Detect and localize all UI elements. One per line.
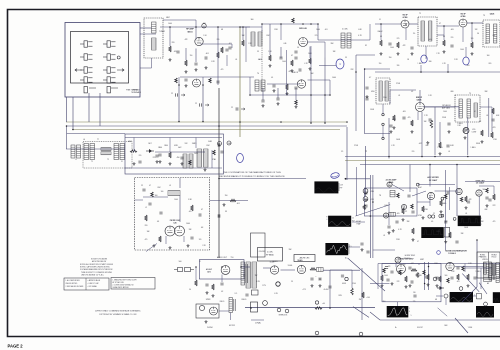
svg-text:T4: T4 (257, 73, 259, 75)
resistor R54 (151, 192, 154, 197)
wire pw8 (361, 268, 363, 320)
svg-text:.05: .05 (235, 59, 237, 61)
resistor R33 (286, 84, 289, 90)
svg-text:L6: L6 (83, 139, 85, 141)
wire bus right pair upper (345, 156, 500, 158)
wire if3 (437, 25, 459, 27)
capacitor C70 (310, 278, 313, 280)
capacitor C3 (228, 47, 231, 49)
svg-text:P-P: P-P (352, 220, 354, 222)
svg-text:1 MEG: 1 MEG (476, 271, 482, 273)
svg-text:.005: .005 (466, 65, 469, 67)
wire au3 (195, 267, 197, 280)
svg-text:.01: .01 (448, 151, 450, 153)
svg-text:ON-OFF: ON-OFF (259, 251, 265, 253)
junction dot 37 (429, 164, 431, 166)
junction dot 38 (370, 215, 372, 217)
ground G11 (397, 52, 400, 55)
coil horiz2 (496, 263, 499, 283)
svg-text:47: 47 (474, 111, 476, 113)
ground G39 (448, 130, 451, 133)
wire au7 (241, 266, 250, 268)
svg-text:PHONO: PHONO (207, 327, 214, 329)
wire verticals center (310, 60, 312, 123)
svg-text:AUDIO OUT: AUDIO OUT (217, 256, 228, 259)
phono jack J1 (218, 142, 222, 146)
svg-text:INTERLOCK: INTERLOCK (279, 315, 288, 317)
capacitor C107 (425, 276, 428, 278)
bracket C (348, 244, 350, 254)
horiz section top wire (378, 263, 500, 265)
svg-text:220: 220 (412, 151, 415, 153)
svg-text:47: 47 (149, 185, 151, 187)
capacitor C52 (199, 213, 201, 216)
wire agd3 (448, 187, 450, 210)
wire snd r2 (419, 90, 421, 103)
resistor R105 (462, 266, 465, 271)
capacitor C25 (447, 123, 450, 125)
AM osc transformer (197, 149, 202, 167)
ground G62 (440, 210, 443, 213)
resistor R40 (130, 150, 137, 153)
resistor R35 (209, 78, 212, 83)
tuner arrow right (117, 69, 124, 72)
coil T5b (494, 24, 497, 43)
svg-text:220: 220 (145, 225, 148, 227)
ground G70 (311, 284, 314, 287)
terminal near H (484, 302, 488, 306)
svg-text:68: 68 (435, 299, 437, 301)
wire rf5 (195, 49, 197, 63)
svg-text:47: 47 (439, 23, 441, 25)
svg-text:39: 39 (345, 57, 347, 59)
test point TP1 (336, 59, 344, 69)
tube V19 (401, 204, 406, 209)
terminal tb2 (441, 197, 444, 200)
svg-text:117VAC: 117VAC (255, 322, 262, 325)
tube V7b (175, 226, 185, 236)
svg-text:FIELD: FIELD (242, 299, 248, 301)
capacitor C23 (463, 129, 466, 131)
resistor R64 (493, 194, 496, 200)
ground G61 (422, 216, 425, 219)
resistor R80 (212, 284, 215, 290)
junction dot 11 (380, 23, 382, 25)
label box white (444, 228, 450, 238)
capacitor C65 (467, 201, 470, 203)
wire c31 (405, 28, 407, 40)
ground G102 (361, 248, 364, 251)
ground G2 (185, 70, 188, 73)
choke transformer (229, 298, 232, 313)
wire snd v3 (491, 122, 493, 132)
wire c33 (425, 46, 427, 59)
capacitor C90 (386, 279, 389, 281)
svg-text:.02: .02 (221, 291, 223, 293)
svg-text:1000: 1000 (316, 29, 320, 31)
capacitor C4 (194, 63, 197, 65)
svg-text:L9: L9 (169, 185, 171, 187)
capacitor C62 (485, 197, 488, 199)
resistor R51 (191, 205, 194, 211)
tuner contact row below (84, 87, 118, 93)
horiz section box (382, 264, 441, 302)
capacitor C51 (159, 212, 162, 214)
wire diag hz1 (462, 274, 479, 292)
svg-text:120: 120 (199, 239, 202, 241)
capacitor C33 (272, 85, 275, 87)
capacitor C103 (395, 221, 398, 223)
resistor R97 (399, 270, 402, 275)
wire hz11 (455, 266, 484, 268)
capacitor C41 (180, 157, 183, 159)
wire c6 (245, 27, 247, 62)
coil T4a (421, 21, 424, 41)
wire c32 (462, 27, 464, 42)
svg-text:IF: IF (379, 19, 381, 21)
junction dot 40 (424, 283, 426, 285)
svg-text:4.5 MC: 4.5 MC (267, 252, 273, 254)
wire am top (125, 137, 222, 139)
resistor R62 (440, 200, 443, 206)
svg-text:1: 1 (481, 218, 482, 220)
ground G37 (390, 130, 393, 133)
capacitor C10 (388, 43, 391, 45)
junction dot 20 (329, 94, 331, 96)
ground G34 (286, 92, 289, 95)
capacitor C34 (294, 87, 297, 89)
coil 4.5mc (390, 190, 395, 197)
wire c21 (308, 79, 331, 81)
capacitor C54 on bus (218, 214, 220, 217)
wire wf2 (352, 221, 365, 223)
wire c5 (231, 44, 233, 48)
svg-text:110: 110 (413, 292, 416, 294)
ground G80 (206, 291, 209, 294)
svg-text:RF AMP: RF AMP (186, 28, 194, 31)
wire c13 (318, 39, 351, 41)
svg-text:THE COOPERATION OF THE MANUFAC: THE COOPERATION OF THE MANUFACTURER OF T… (223, 171, 281, 174)
svg-text:+140: +140 (366, 297, 370, 299)
wire aud v1 (421, 112, 423, 157)
tube V4 (401, 20, 409, 28)
svg-text:60: 60 (345, 257, 347, 259)
svg-text:1 MEG: 1 MEG (418, 63, 424, 65)
junction dot 27 (310, 122, 312, 124)
junction dot 25 (218, 125, 220, 127)
wire c9 (280, 24, 282, 40)
ground G35 (185, 84, 188, 87)
wire c12 (310, 46, 312, 60)
wire bus right third (360, 164, 500, 166)
svg-text:SND IF: SND IF (292, 72, 299, 74)
svg-text:P-P: P-P (340, 188, 343, 190)
svg-text:.005: .005 (428, 39, 431, 41)
capacitor C102 (407, 195, 410, 197)
svg-text:PAGE 2: PAGE 2 (8, 344, 24, 349)
svg-text:22: 22 (171, 93, 173, 95)
svg-text:.02: .02 (398, 95, 400, 97)
wire v240 (239, 27, 241, 137)
wire bottom rail lead (370, 312, 380, 320)
wire wf3 (348, 246, 360, 248)
resistor R67 (460, 197, 463, 202)
svg-text:COPYRIGHT BY HOWARD W. SAMS CO: COPYRIGHT BY HOWARD W. SAMS CO. INC. (99, 313, 138, 316)
wire fm out (210, 200, 249, 202)
wire hz7 (464, 264, 466, 273)
junction dot 15 (420, 71, 422, 73)
svg-text:RF BAND: RF BAND (266, 254, 275, 257)
svg-text:68: 68 (221, 29, 223, 31)
junction dot 1 (217, 26, 219, 28)
capacitor C39c (236, 107, 238, 110)
capacitor C60 (411, 211, 414, 213)
capacitor C39 (176, 93, 178, 96)
capacitor C37 (365, 87, 368, 89)
wire agd4 (465, 181, 500, 183)
coil T7c (474, 103, 477, 117)
resistor R96 (383, 268, 386, 273)
junction dot 44 (250, 307, 252, 309)
svg-text:47: 47 (201, 209, 203, 211)
wire fm4 (165, 236, 167, 244)
svg-text:6AU6: 6AU6 (258, 58, 262, 61)
ground G96 (436, 284, 439, 287)
tuner switch contact 1B (103, 41, 116, 47)
coil ctrl2 (493, 263, 496, 275)
svg-text:.05: .05 (465, 213, 467, 215)
terminal pw2 (315, 301, 318, 304)
svg-text:DET: DET (148, 143, 151, 145)
resistor R3 (217, 52, 220, 58)
wire pw6 (251, 319, 264, 321)
wire agc11 (409, 165, 411, 193)
junction dot 17 (310, 94, 312, 96)
junction dot 4 (280, 23, 282, 25)
resistor R63 (465, 196, 468, 202)
wire au2 (221, 275, 223, 283)
wire sync diag (462, 287, 477, 302)
tube V2 MIXER (299, 38, 308, 47)
svg-text:50B5: 50B5 (208, 141, 212, 143)
ground G20 (393, 126, 396, 129)
AM IF can T6x (84, 144, 89, 160)
svg-text:150: 150 (389, 57, 392, 59)
ground G12 (411, 52, 414, 55)
svg-text:SPKR: SPKR (206, 299, 211, 301)
wire hz1 (395, 264, 397, 268)
AC interlock box (251, 302, 258, 312)
ground G38 (426, 141, 429, 144)
notes table divider (85, 278, 87, 290)
resistor blocks (101, 148, 111, 151)
svg-text:NOISE DISCRIMINATOR: NOISE DISCRIMINATOR (445, 249, 467, 252)
coil 4.5mc b (389, 212, 396, 216)
svg-text:220: 220 (172, 42, 175, 44)
waveform photo W6 (450, 292, 473, 302)
wire tp line (319, 65, 336, 67)
svg-text:470: 470 (408, 117, 411, 119)
capacitor C35 (184, 79, 187, 81)
svg-text:.005: .005 (173, 51, 176, 53)
ground G33 (273, 89, 276, 92)
resistor R1 (169, 46, 172, 52)
resistor R102 (411, 204, 414, 209)
svg-text:.001: .001 (484, 43, 487, 45)
output transformer core (245, 264, 247, 283)
junction dot 42 (476, 239, 478, 241)
wire w45b (417, 201, 430, 203)
svg-text:+275: +275 (302, 289, 306, 291)
svg-text:.001: .001 (236, 203, 239, 205)
wire snd (317, 24, 319, 40)
svg-text:220: 220 (139, 155, 142, 157)
capacitor C43 (138, 161, 141, 163)
svg-text:220: 220 (451, 37, 454, 39)
wire tuner verticals (67, 93, 101, 130)
svg-text:AF AMP: AF AMP (206, 268, 213, 271)
wire mx3 (309, 47, 311, 59)
wire antenna lead (151, 58, 153, 68)
resistor block audio 2 (185, 268, 191, 272)
capacitor C101 (364, 205, 367, 207)
resistor R73 (362, 292, 365, 298)
ground G71 (319, 284, 322, 287)
svg-text:330: 330 (429, 61, 432, 63)
resistor R12 (443, 40, 446, 46)
resistor R10 (380, 40, 383, 46)
svg-text:T7: T7 (97, 139, 99, 141)
svg-text:.05: .05 (431, 221, 433, 223)
wire diag hz2 (479, 283, 487, 294)
wire rf2 (185, 48, 187, 60)
label small box1 (258, 248, 283, 262)
wire pw1 (263, 267, 271, 269)
svg-text:100: 100 (487, 55, 490, 57)
wire hz10 (370, 283, 390, 285)
wire agc1 (412, 191, 426, 196)
box outline pw left (251, 233, 266, 257)
ground G42 (169, 162, 172, 165)
wire c4 (201, 43, 233, 45)
junction dot 14 (471, 22, 473, 24)
svg-text:1 MEG: 1 MEG (457, 123, 463, 125)
wire c1 (163, 19, 196, 21)
wire sync v (476, 240, 478, 287)
junction dot 47 (221, 266, 223, 268)
svg-text:1200: 1200 (352, 283, 356, 285)
circle above F (459, 287, 463, 291)
svg-text:270: 270 (315, 35, 318, 37)
ground G24 (464, 136, 467, 139)
svg-text:1000: 1000 (282, 61, 286, 63)
svg-text:20W: 20W (338, 295, 342, 297)
wire wf1 (346, 178, 371, 180)
junction dot 18 (324, 94, 326, 96)
svg-text:PHASING: PHASING (479, 256, 487, 259)
svg-text:47: 47 (417, 241, 419, 243)
ground G82 (205, 320, 208, 323)
coil T4b (429, 21, 432, 41)
junction dot 48 (240, 266, 242, 268)
resistor R23 (481, 130, 484, 136)
svg-text:680: 680 (451, 91, 454, 93)
junction dot 32 (421, 156, 423, 158)
capacitor C91 (411, 280, 413, 283)
svg-text:.05: .05 (486, 115, 488, 117)
svg-text:4700: 4700 (371, 91, 375, 93)
ground G13 (443, 50, 446, 53)
svg-text:68: 68 (380, 36, 382, 38)
resistor R103 (411, 269, 417, 272)
svg-text:B+: B+ (395, 327, 397, 329)
junction dot 39 (372, 201, 374, 203)
capacitor C40b (389, 125, 392, 127)
capacitor C96 (408, 267, 411, 269)
wire agc7 (392, 185, 404, 192)
svg-text:50: 50 (189, 289, 191, 291)
svg-text:6.8: 6.8 (201, 227, 203, 229)
junction dot 12 (405, 23, 407, 25)
ground G101 (365, 198, 368, 201)
svg-text:150: 150 (379, 63, 382, 65)
svg-text:1 MEG: 1 MEG (471, 147, 477, 149)
capacitor C36b (225, 49, 228, 51)
wire sif4 (364, 68, 390, 70)
capacitor C31 (276, 98, 279, 100)
resistor R66 (449, 232, 452, 238)
svg-text:T1: T1 (91, 161, 93, 163)
wire bus right pair lower (345, 160, 500, 162)
pilot lamp (276, 282, 280, 286)
capacitor C71 (318, 278, 321, 280)
wire fm1 (143, 196, 168, 198)
resistor R4 (242, 40, 245, 46)
wire c35 (437, 34, 444, 36)
coil T7b (467, 99, 470, 118)
wire fm5 (183, 236, 185, 242)
svg-text:AM-FM CHG: AM-FM CHG (300, 257, 310, 260)
tube V9 (427, 192, 434, 199)
resistor R98 (423, 270, 426, 275)
ground G94 (391, 282, 394, 285)
junction dot 35 (388, 156, 390, 158)
wire antenna to tuner (140, 27, 152, 29)
wire snd v2 (439, 122, 441, 142)
ground G95 (409, 284, 412, 287)
capacitor C20 (402, 117, 405, 119)
wire if v3 (471, 23, 473, 42)
ground G36 (366, 95, 369, 98)
resistor R30 (295, 100, 298, 105)
resistor R5 (269, 55, 272, 61)
svg-text:T2: T2 (107, 159, 109, 161)
wire aud h1 (423, 106, 459, 108)
waveform photo W8 (476, 306, 494, 318)
capacitor C94 (413, 295, 416, 297)
svg-text:ANT: ANT (166, 16, 169, 19)
svg-text:6AU6: 6AU6 (490, 13, 495, 16)
tube V17 (446, 262, 454, 270)
wire B+ bus mid (66, 125, 347, 127)
waveform photo W2 (328, 216, 351, 227)
wire pw7 (323, 269, 360, 271)
waveform photo W7 (387, 306, 409, 317)
wire au5 (219, 310, 229, 312)
wire hz3 (465, 267, 492, 269)
tube V11 rect (270, 266, 278, 274)
wire pw3 (329, 270, 331, 308)
